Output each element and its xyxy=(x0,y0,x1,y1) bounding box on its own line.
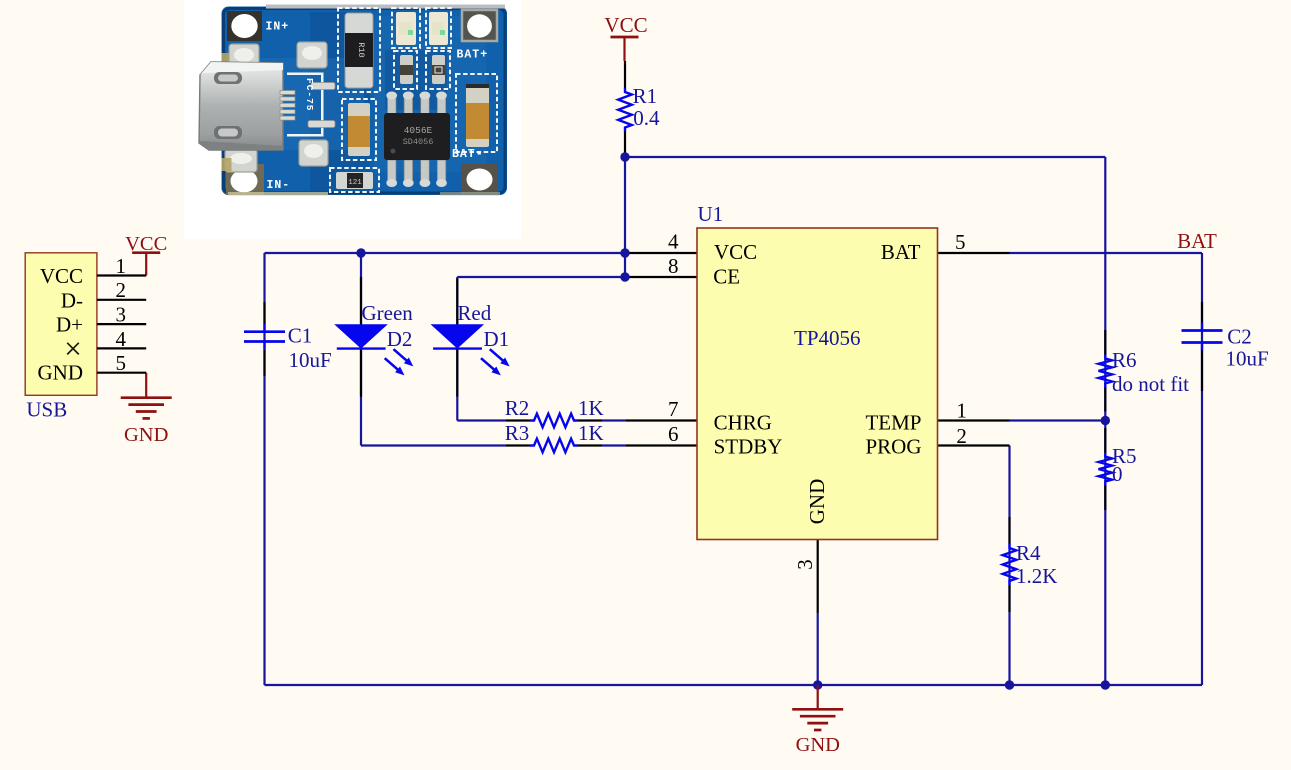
svg-text:FC-75: FC-75 xyxy=(304,78,315,112)
svg-text:10uF: 10uF xyxy=(289,348,332,372)
svg-text:1K: 1K xyxy=(578,396,604,420)
svg-text:D+: D+ xyxy=(56,313,83,337)
svg-text:VCC: VCC xyxy=(604,13,647,37)
svg-text:8: 8 xyxy=(668,254,679,278)
svg-text:VCC: VCC xyxy=(40,264,83,288)
svg-text:BAT: BAT xyxy=(1177,229,1217,253)
svg-text:2: 2 xyxy=(116,278,127,302)
svg-text:TP4056: TP4056 xyxy=(794,326,861,350)
svg-text:R10: R10 xyxy=(356,42,366,57)
svg-text:GND: GND xyxy=(805,479,829,525)
svg-text:6: 6 xyxy=(668,422,679,446)
svg-text:TEMP: TEMP xyxy=(865,411,921,435)
svg-text:IN+: IN+ xyxy=(266,21,290,34)
svg-text:U1: U1 xyxy=(698,202,724,226)
svg-text:7: 7 xyxy=(668,397,679,421)
svg-text:VCC: VCC xyxy=(714,240,757,264)
svg-text:1: 1 xyxy=(956,399,967,423)
svg-text:5: 5 xyxy=(116,351,127,375)
svg-text:GND: GND xyxy=(124,424,168,446)
svg-text:0: 0 xyxy=(1112,462,1123,486)
svg-text:10uF: 10uF xyxy=(1226,346,1269,370)
svg-text:IN-: IN- xyxy=(267,179,291,192)
svg-text:GND: GND xyxy=(796,734,840,756)
svg-text:CHRG: CHRG xyxy=(714,411,772,435)
svg-text:1: 1 xyxy=(116,254,127,278)
svg-text:BAT: BAT xyxy=(881,240,921,264)
svg-text:3: 3 xyxy=(116,303,127,327)
svg-text:VCC: VCC xyxy=(125,233,167,255)
svg-text:C2: C2 xyxy=(1227,325,1252,349)
svg-text:STDBY: STDBY xyxy=(714,434,783,458)
svg-text:SD4056: SD4056 xyxy=(403,137,434,147)
svg-text:0.4: 0.4 xyxy=(633,106,660,130)
svg-text:Green: Green xyxy=(362,301,414,325)
svg-text:4056E: 4056E xyxy=(404,125,433,136)
svg-text:R2: R2 xyxy=(505,396,530,420)
svg-text:2: 2 xyxy=(956,424,967,448)
svg-text:R1: R1 xyxy=(633,84,658,108)
svg-text:USB: USB xyxy=(26,397,67,421)
svg-text:R4: R4 xyxy=(1016,541,1041,565)
svg-text:4: 4 xyxy=(116,327,127,351)
svg-text:1.2K: 1.2K xyxy=(1016,564,1057,588)
svg-text:5: 5 xyxy=(955,230,966,254)
svg-text:D-: D- xyxy=(61,289,83,313)
svg-text:3: 3 xyxy=(793,559,817,570)
svg-text:GND: GND xyxy=(38,360,84,384)
svg-text:do not fit: do not fit xyxy=(1112,372,1189,396)
svg-text:C1: C1 xyxy=(288,324,313,348)
svg-text:R6: R6 xyxy=(1112,348,1137,372)
svg-text:121: 121 xyxy=(348,179,362,187)
svg-text:BAT+: BAT+ xyxy=(457,49,489,62)
svg-text:PROG: PROG xyxy=(865,434,921,458)
svg-text:BAT-: BAT- xyxy=(452,148,484,161)
svg-text:Red: Red xyxy=(457,301,491,325)
svg-text:D1: D1 xyxy=(484,327,510,351)
svg-text:1K: 1K xyxy=(578,421,604,445)
svg-text:R3: R3 xyxy=(505,421,530,445)
svg-text:D2: D2 xyxy=(387,327,413,351)
svg-text:CE: CE xyxy=(713,264,740,288)
svg-text:4: 4 xyxy=(668,230,679,254)
